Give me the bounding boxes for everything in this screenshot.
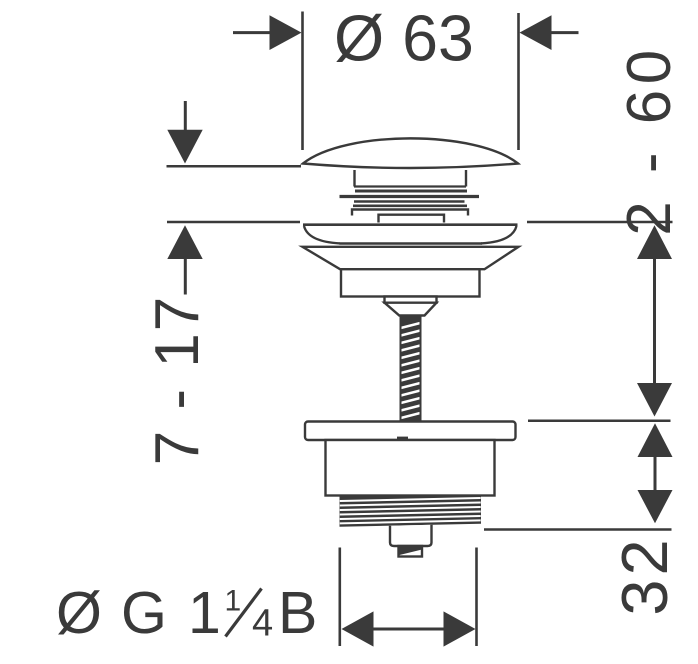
- svg-text:1: 1: [188, 580, 221, 646]
- svg-text:1: 1: [225, 585, 242, 618]
- svg-text:B: B: [278, 580, 317, 646]
- svg-text:7 - 17: 7 - 17: [143, 295, 212, 466]
- svg-text:4: 4: [252, 603, 273, 645]
- svg-text:Ø 63: Ø 63: [334, 2, 474, 74]
- svg-text:2 - 60: 2 - 60: [615, 44, 684, 236]
- svg-text:32: 32: [608, 535, 681, 615]
- svg-text:G: G: [121, 580, 167, 646]
- svg-text:Ø: Ø: [56, 580, 102, 646]
